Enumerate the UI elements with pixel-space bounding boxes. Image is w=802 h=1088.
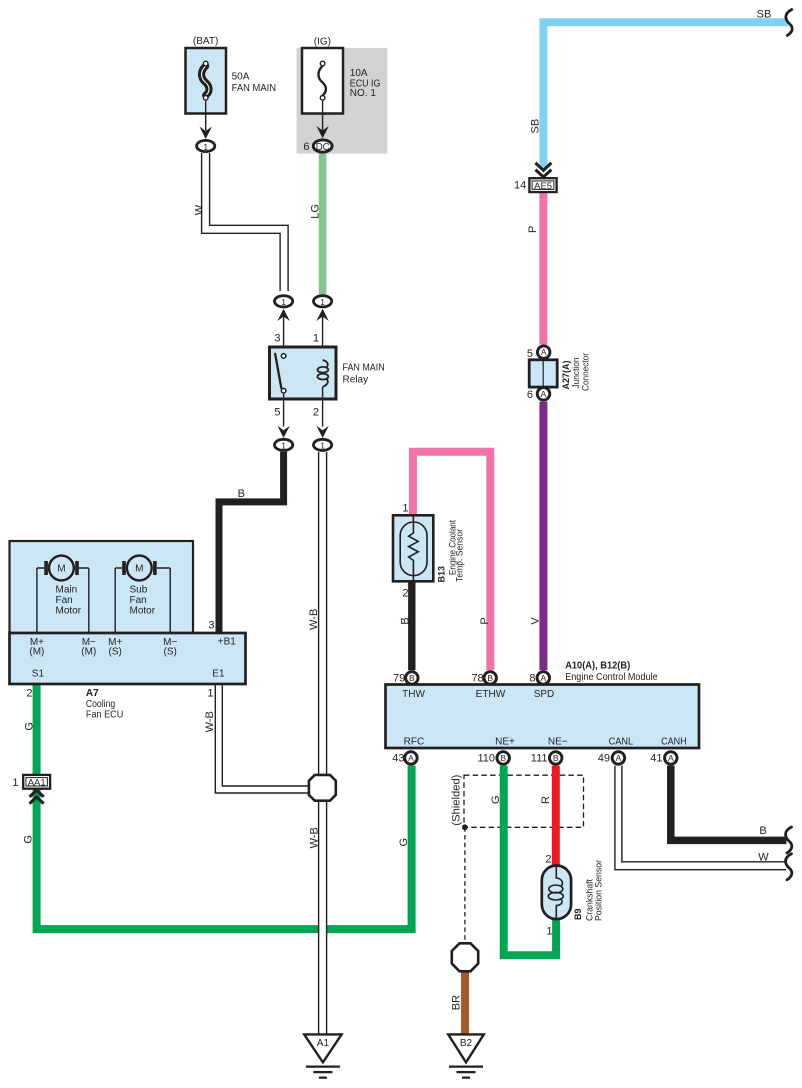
svg-text:A: A [540,673,546,683]
svg-text:V: V [530,617,542,625]
svg-text:110: 110 [477,753,495,765]
svg-text:W: W [193,204,205,215]
svg-text:5: 5 [274,407,280,419]
svg-text:A10(A), B12(B): A10(A), B12(B) [565,660,630,671]
svg-text:CANL: CANL [609,736,634,747]
svg-text:78: 78 [471,673,483,685]
svg-text:R: R [540,796,552,804]
svg-text:79: 79 [393,673,405,685]
svg-text:1: 1 [546,926,552,938]
svg-text:43: 43 [392,753,404,765]
svg-text:(S): (S) [164,647,177,658]
svg-text:111: 111 [531,753,548,765]
svg-text:Sub: Sub [130,585,148,596]
svg-text:P: P [527,226,539,233]
svg-text:8: 8 [529,673,535,685]
svg-text:SB: SB [757,9,772,21]
svg-text:1: 1 [320,297,325,307]
svg-text:A27(A): A27(A) [561,360,571,389]
svg-text:SB: SB [530,119,542,134]
svg-text:3: 3 [208,620,214,632]
svg-text:A7: A7 [86,688,99,699]
svg-text:1: 1 [281,297,286,307]
svg-text:(S): (S) [109,647,122,658]
svg-text:B: B [759,825,766,837]
svg-text:BR: BR [451,995,463,1010]
svg-text:6: 6 [527,389,533,401]
svg-text:B2: B2 [460,1038,473,1049]
svg-text:G: G [398,838,410,847]
svg-text:W-B: W-B [308,609,320,630]
svg-text:A: A [616,753,622,763]
svg-text:(Shielded): (Shielded) [450,775,462,826]
svg-text:1: 1 [320,441,325,451]
svg-text:A: A [408,753,414,763]
svg-text:A: A [541,389,547,399]
svg-text:A: A [668,753,674,763]
svg-text:B9: B9 [573,908,583,920]
svg-text:2: 2 [26,688,32,700]
svg-text:M: M [57,564,65,575]
svg-text:Fan: Fan [130,595,147,606]
svg-text:(BAT): (BAT) [193,36,219,47]
svg-text:B: B [400,617,412,624]
svg-text:P: P [479,617,491,624]
svg-text:THW: THW [402,689,425,700]
svg-text:Fan ECU: Fan ECU [86,710,123,721]
svg-text:1: 1 [402,503,408,515]
svg-text:50A: 50A [232,72,250,83]
svg-text:3: 3 [274,333,280,345]
svg-text:1: 1 [207,688,213,700]
svg-text:CANH: CANH [661,736,687,747]
svg-text:+B1: +B1 [218,637,237,648]
svg-text:14: 14 [514,180,526,192]
svg-text:RFC: RFC [404,736,425,747]
svg-text:LG: LG [309,204,321,219]
svg-text:Cooling: Cooling [86,699,115,710]
svg-text:G: G [24,722,36,731]
svg-text:A1: A1 [317,1038,330,1049]
svg-text:NE+: NE+ [495,736,515,747]
svg-text:B: B [409,673,415,683]
svg-text:FAN MAIN: FAN MAIN [343,363,385,374]
svg-text:S1: S1 [32,669,45,680]
svg-text:A: A [541,347,547,357]
svg-text:Position Sensor: Position Sensor [594,860,604,921]
svg-text:1: 1 [203,142,208,152]
svg-text:FAN MAIN: FAN MAIN [232,83,276,94]
svg-text:Fan: Fan [56,595,73,606]
svg-text:Connector: Connector [580,353,590,391]
svg-text:41: 41 [650,753,662,765]
svg-text:M: M [135,564,143,575]
svg-text:Temp. Sensor: Temp. Sensor [455,529,465,582]
svg-text:1: 1 [12,777,18,789]
svg-text:2: 2 [545,853,551,865]
svg-text:B13: B13 [436,566,446,583]
svg-text:(M): (M) [29,647,44,658]
svg-text:AA1: AA1 [28,777,46,788]
svg-text:NE−: NE− [548,736,568,747]
svg-text:49: 49 [598,753,610,765]
svg-text:(IG): (IG) [314,36,331,47]
svg-text:B: B [500,753,506,763]
svg-text:AE5: AE5 [534,181,552,192]
svg-text:W-B: W-B [309,827,321,848]
svg-text:B: B [553,753,559,763]
svg-text:SPD: SPD [534,689,555,700]
svg-text:DC: DC [316,142,330,153]
svg-text:Engine Control Module: Engine Control Module [565,672,658,683]
svg-text:B: B [487,673,493,683]
svg-text:G: G [490,795,502,804]
svg-text:NO. 1: NO. 1 [350,88,377,99]
svg-text:(M): (M) [81,647,96,658]
svg-text:G: G [22,835,34,844]
svg-text:E1: E1 [212,669,225,680]
svg-text:W: W [758,852,769,864]
svg-text:Motor: Motor [130,606,156,617]
svg-text:ETHW: ETHW [476,689,506,700]
svg-text:W-B: W-B [204,711,216,732]
svg-text:6: 6 [303,141,309,153]
svg-text:5: 5 [527,348,533,360]
svg-text:2: 2 [402,588,408,600]
svg-text:1: 1 [281,441,286,451]
svg-text:B: B [238,488,245,500]
svg-text:2: 2 [313,407,319,419]
svg-text:Main: Main [56,585,78,596]
svg-text:1: 1 [313,333,319,345]
svg-text:10A: 10A [350,68,368,79]
svg-text:Motor: Motor [56,606,82,617]
svg-text:Relay: Relay [343,375,369,386]
